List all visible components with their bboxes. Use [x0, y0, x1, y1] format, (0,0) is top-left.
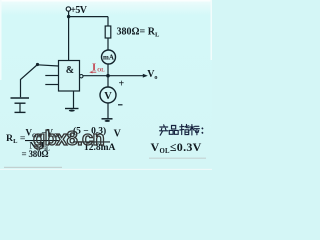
battery V1 long plate: [11, 97, 30, 99]
formula RL = (VOH - VOL)/(NO IiL): [6, 126, 122, 160]
gate output bubble: [80, 75, 83, 78]
red current arrow: [91, 71, 97, 73]
wire gate bottom to ground: [73, 91, 75, 108]
wire node to Vo arrow: [108, 75, 144, 77]
svg-text:380Ω= RL: 380Ω= RL: [117, 27, 160, 39]
char biao: [190, 125, 200, 135]
battery V1 short plate: [15, 102, 26, 104]
ground bar battery: [15, 111, 26, 113]
label chanpin zhibiao (Chinese): [160, 124, 203, 135]
wire ammeter to node: [107, 64, 109, 76]
char zhi: [180, 124, 189, 134]
junction top rail: [67, 15, 70, 18]
wire VCC down to gate top: [68, 17, 70, 61]
voltmeter minus: [118, 104, 123, 106]
node input A dot: [36, 63, 39, 66]
svg-text:+: +: [119, 78, 125, 89]
node output junction: [106, 74, 110, 78]
wire resistor to ammeter: [107, 38, 109, 50]
char chan: [160, 125, 169, 135]
svg-text:V: V: [114, 128, 122, 139]
svg-text:V: V: [104, 91, 112, 102]
wire node down to voltmeter: [107, 76, 109, 87]
svg-text:mA: mA: [103, 54, 114, 62]
wire battery to ground bar: [19, 103, 21, 112]
gate input A wire: [38, 65, 59, 66]
gate input C stub: [45, 84, 58, 86]
wire gate output to node: [83, 75, 108, 77]
svg-text:&: &: [66, 65, 74, 76]
wire top rail horizontal: [69, 16, 108, 18]
resistor RL body: [105, 26, 111, 38]
char pin: [169, 126, 178, 135]
voltmeter V: [100, 87, 116, 103]
ammeter mA: [102, 50, 116, 64]
svg-text:OL: OL: [97, 68, 105, 74]
wire input A diagonal to source: [21, 65, 38, 98]
wire terminal to rail: [68, 11, 70, 16]
svg-text:+5V: +5V: [70, 5, 87, 16]
ground gate: [65, 108, 79, 110]
svg-text:VOL≤0.3V: VOL≤0.3V: [151, 140, 202, 155]
svg-text:= 380Ω: = 380Ω: [22, 149, 49, 159]
wire rail down to resistor: [107, 17, 109, 26]
power terminal +5V circle: [66, 7, 70, 11]
wire voltmeter to ground: [107, 103, 109, 119]
svg-text:gbx8.cn: gbx8.cn: [33, 128, 104, 150]
faint artifacts: [149, 158, 206, 159]
gate input B stub: [45, 75, 58, 77]
ground voltmeter: [102, 118, 113, 120]
colon: [201, 128, 203, 133]
NAND gate U1 body: [59, 61, 80, 92]
